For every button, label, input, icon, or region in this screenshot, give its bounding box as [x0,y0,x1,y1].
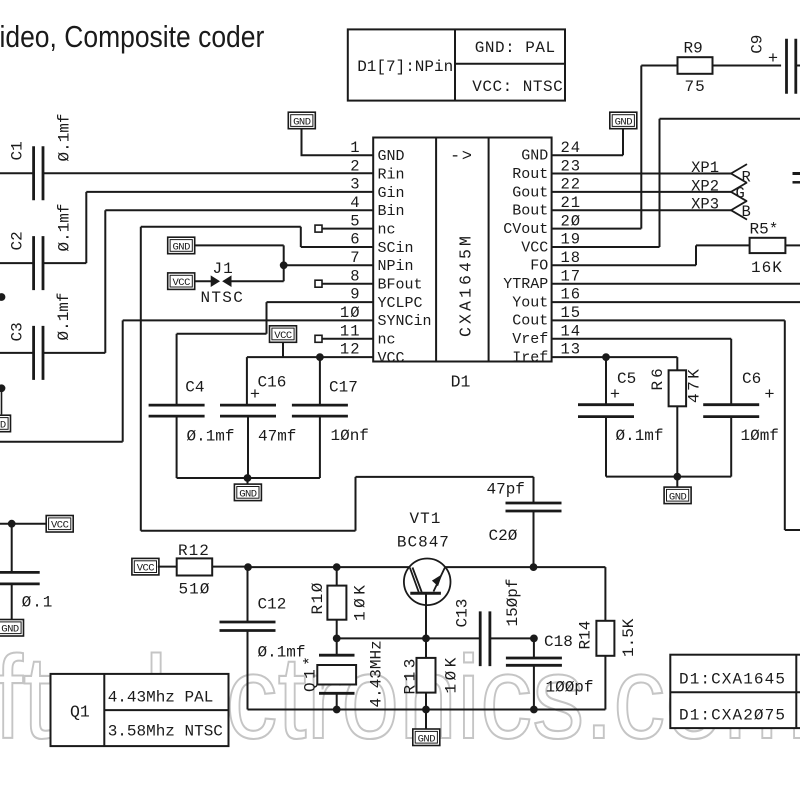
value R12 510 [179,581,211,599]
svg-text:Bin: Bin [378,203,405,220]
resistor R12 [177,558,213,575]
svg-text:XP1: XP1 [691,159,719,177]
wire R13 leads [425,638,427,709]
svg-text:->: -> [450,148,473,167]
wire SYNC RC node (left edge) [0,520,46,622]
capacitor C17 [292,405,348,416]
capacitor C9 (polarized) [768,39,796,94]
svg-text:3.58Mhz NTSC: 3.58Mhz NTSC [108,723,223,741]
wire Bin net (C3 to pin 4) [0,210,373,353]
svg-text:D1:CXA1645: D1:CXA1645 [679,671,786,689]
svg-text:47pf: 47pf [487,481,525,499]
value C3 0.1mf [55,292,73,340]
value C5 0.1mf [616,427,664,445]
svg-text:GND: GND [615,117,633,129]
label NTSC [201,289,245,307]
svg-text:GND: GND [293,117,311,129]
value C1 0.1mf [56,113,74,161]
resistor R13 [417,658,436,693]
svg-text:C1: C1 [9,141,27,160]
wire pin5 nc stub [315,225,373,232]
svg-text:C18: C18 [544,633,573,651]
svg-text:G: G [736,185,745,203]
svg-text:CVout: CVout [503,221,548,238]
svg-text:Gin: Gin [378,185,405,202]
svg-text:SCin: SCin [378,240,414,257]
label B [742,203,751,221]
svg-text:11: 11 [340,322,361,340]
label D1 [451,373,471,392]
left-edge bus stub with junctions [0,293,5,414]
value C4 0.1mf [187,428,235,446]
svg-text:CXA1645M: CXA1645M [457,233,476,337]
svg-text:47mf: 47mf [258,428,296,446]
ground GND (bottom left) [0,620,24,637]
svg-text:1.5K: 1.5K [620,618,638,657]
ground GND (C5 rail) [664,487,691,504]
wire pin1 to ground [302,129,374,156]
svg-text:1ØK: 1ØK [443,654,461,693]
wire YCLPC net (pin 9 to C4) [177,302,374,405]
wire pin11 nc stub [315,335,373,342]
wire R10 leads [336,567,338,638]
svg-text:Ø.1mf: Ø.1mf [258,644,306,662]
capacitor C2 [34,236,43,290]
svg-text:C9: C9 [749,35,767,54]
svg-text:6: 6 [350,231,360,249]
label C17 [329,379,358,397]
label R5* [750,221,779,239]
wire Iref net (pin 13, C5, R6) [552,353,678,405]
ground GND (pin 1) [288,112,315,129]
svg-text:16: 16 [561,286,582,304]
label R [742,169,751,187]
svg-text:Ø.1mf: Ø.1mf [187,428,235,446]
power VCC (bottom left) [46,516,73,533]
value C12 0.1mf [258,644,306,662]
wire NPin net with J1 jumper [194,245,374,281]
svg-text:C2Ø: C2Ø [489,527,518,545]
svg-text:C2: C2 [9,231,27,250]
svg-text:GND: GND [378,148,405,165]
capacitor C1 [34,146,43,200]
svg-text:VCC: VCC [378,350,405,367]
svg-text:J1: J1 [213,260,234,278]
label R14 [577,621,595,650]
wire pin21 to XP3 [552,209,731,211]
transistor VT1 BC847 [404,559,451,606]
wire crystal leads [336,638,338,709]
label R13 [402,655,420,694]
wire YTRAP net (pin 17) [552,283,800,285]
svg-text:C13: C13 [454,599,472,628]
capacitor C-left 0.1 [0,572,40,584]
svg-text:XP3: XP3 [691,196,719,214]
title text [0,19,264,54]
svg-text:C17: C17 [329,379,358,397]
svg-text:BC847: BC847 [397,534,450,552]
svg-text:YTRAP: YTRAP [503,276,548,293]
svg-text:1Ømf: 1Ømf [741,427,779,445]
label R9 [684,40,703,58]
label G [736,185,745,203]
svg-text:VCC: NTSC: VCC: NTSC [472,78,563,96]
wire Rin net (C1 to pin 2) [0,172,373,174]
svg-text:75: 75 [685,78,706,96]
label C12 [258,596,287,614]
wire Vref net (pin 14 to C6) [552,339,732,405]
capacitor C4 [149,405,205,416]
svg-text:C5: C5 [617,370,636,388]
svg-text:4: 4 [350,194,360,212]
label XP1 [691,159,719,177]
wire R12 to collector rail [212,566,248,568]
ground GND (bottom rail) [413,729,440,746]
svg-text:Video, Composite coder: Video, Composite coder [0,19,264,54]
label XP3 [691,196,719,214]
value 4.43MHz [368,640,386,707]
svg-text:1ØK: 1ØK [352,582,370,621]
wire pin8 nc stub [315,280,373,287]
svg-text:Ø.1: Ø.1 [22,594,54,612]
capacitor C12 [220,622,276,631]
svg-text:Vref: Vref [512,331,548,348]
wire C5/R6/C6 ground rail [606,406,731,489]
label C18 [544,633,573,651]
svg-text:C12: C12 [258,596,287,614]
svg-text:GND: GND [1,624,19,636]
label C9 [749,35,767,54]
svg-text:D1:CXA2Ø75: D1:CXA2Ø75 [679,707,786,725]
svg-text:51Ø: 51Ø [179,581,211,599]
wire emitter/ground rail [248,706,606,730]
svg-text:D1[7]:NPin: D1[7]:NPin [357,58,453,76]
svg-text:B: B [742,203,751,221]
svg-text:47K: 47K [686,367,704,403]
wire C20 to rail [533,511,535,567]
svg-text:R6: R6 [649,365,667,390]
svg-text:VT1: VT1 [410,510,442,528]
connector XP1 chevron [731,164,747,183]
resistor R5* [750,238,786,253]
svg-text:nc: nc [378,222,396,239]
wire C4/C16/C17 ground rail [177,416,320,486]
value C2 0.1mf [56,203,74,251]
svg-text:Rin: Rin [378,167,405,184]
label C13 [454,599,472,628]
value R13 10K [443,654,461,693]
connector XP3 chevron [731,201,747,220]
wire SYNCin net (pin 10 to left edge) [0,320,373,441]
svg-text:15Øpf: 15Øpf [504,578,522,626]
jumper J1 bowtie [211,277,231,286]
svg-text:8: 8 [350,267,360,285]
value R14 1.5K [620,618,638,657]
IC direction arrow -> [450,148,473,167]
power VCC (J1) [168,273,195,290]
svg-text:16K: 16K [751,259,783,277]
resistor R9 [678,57,713,74]
label C3 [9,322,27,341]
svg-text:Gout: Gout [512,184,548,201]
wire R14 leads [604,567,606,709]
power VCC (above C16) [270,326,297,343]
ground GND (C4 rail) [234,484,261,501]
ground earth symbol (right edge, cut) [793,174,800,183]
label C1 [9,141,27,160]
svg-text:VCC: VCC [51,520,69,532]
wire FO net (pin 18 to R5) [552,245,750,265]
wire R5 out [785,244,800,246]
svg-text:SYNCin: SYNCin [378,313,432,330]
crystal Q1* [317,655,356,693]
svg-text:NTSC: NTSC [201,289,245,307]
wire CVout net (pin 20 to R9) [552,66,678,229]
svg-text:Cout: Cout [512,313,548,330]
svg-text:R1Ø: R1Ø [309,581,327,614]
svg-text:Ø.1mf: Ø.1mf [56,203,74,251]
table: Q1 crystal options [51,674,229,746]
power VCC (R12) [132,558,159,575]
svg-text:VCC: VCC [274,330,292,342]
svg-text:14: 14 [561,322,582,340]
wire SCin net (pin 6 to C20) [141,227,534,531]
ground GND (left edge, cut) [0,415,11,432]
svg-text:GND: GND [239,488,257,500]
wire VCC net (pin 12, C16, C17) [247,341,373,406]
svg-text:+: + [764,386,774,405]
svg-text:GND: GND [0,420,6,432]
label R10 [309,581,327,614]
svg-text:GND: GND [521,148,548,165]
svg-text:GND: GND [418,733,436,745]
value C20 47pf [487,481,525,499]
value R5 16K [751,259,783,277]
capacitor C5 (polarized) [578,386,634,417]
svg-text:Iref: Iref [512,349,548,366]
table: D1[7]:NPin jumper legend [348,29,565,100]
wire Yout net (pin 16) [552,301,800,303]
value R6 47K [686,367,704,403]
svg-text:1Ø: 1Ø [340,304,361,322]
capacitor C6 (polarized) [703,386,774,417]
value C17 10nf [331,427,369,445]
svg-text:15: 15 [561,304,582,322]
label BC847 [397,534,450,552]
svg-text:NPin: NPin [378,258,414,275]
svg-text:FO: FO [530,258,548,275]
svg-text:12: 12 [340,341,361,359]
svg-text:Rout: Rout [512,166,548,183]
svg-text:C3: C3 [9,322,27,341]
label C20 [489,527,518,545]
label C16 [258,374,287,392]
label R12 [178,542,210,560]
wire collector rail [244,563,605,571]
svg-text:Ø.1mf: Ø.1mf [56,113,74,161]
value R10 10K [352,582,370,621]
resistor R10 [327,586,346,620]
svg-text:D1: D1 [451,373,471,392]
capacitor C18 [506,658,562,665]
svg-text:VCC: VCC [137,563,155,575]
ground GND (J1) [168,237,195,254]
svg-text:R12: R12 [178,542,210,560]
svg-text:13: 13 [561,341,582,359]
svg-text:C16: C16 [258,374,287,392]
wire pin24 to ground [552,129,623,156]
label VT1 [410,510,442,528]
wire base net [333,593,538,642]
svg-text:XP2: XP2 [691,177,719,195]
svg-text:4.43Mhz PAL: 4.43Mhz PAL [108,689,214,707]
resistor R14 [596,621,614,656]
label C5 [617,370,636,388]
svg-text:C4: C4 [185,379,204,397]
IC U-D1 CXA1645M body [373,138,551,362]
svg-text:YCLPC: YCLPC [378,295,423,312]
capacitor C16 (polarized) [220,386,276,416]
IC part number CXA1645M [457,233,476,337]
value C16 47mf [258,428,296,446]
svg-text:GND: GND [172,241,190,253]
svg-text:R14: R14 [577,621,595,650]
wire C18 leads [533,638,535,709]
capacitor C3 [34,326,43,380]
capacitor C13 [480,611,490,666]
IC right pin labels and numbers 24-13 [503,139,581,366]
label R6 [649,365,667,390]
svg-text:+: + [768,50,778,69]
label C4 [185,379,204,397]
wire C9 out [796,65,800,67]
svg-text:17: 17 [561,267,582,285]
label XP2 [691,177,719,195]
wire Cout net (pin 15) [552,320,800,530]
ground GND (pin 24) [610,112,637,129]
capacitor C20 [506,503,562,511]
svg-text:3: 3 [350,176,360,194]
label Q1* [302,653,320,692]
wire VCC to R12 [158,566,177,568]
wire Gin net (C2 to pin 3) [0,192,373,263]
value 0.1 [22,594,54,612]
wire VCC net (pin 19 to right edge) [552,119,800,247]
svg-text:Ø.1mf: Ø.1mf [55,292,73,340]
svg-text:Q1: Q1 [70,703,90,722]
wire pin22 to XP2 [552,191,731,193]
svg-text:2: 2 [350,157,360,175]
svg-text:R5*: R5* [750,221,779,239]
watermark soft-electronics.com (decorative) [0,632,800,764]
svg-text:Ø.1mf: Ø.1mf [616,427,664,445]
svg-text:GND: PAL: GND: PAL [475,39,556,57]
resistor R6 [669,370,687,406]
svg-text:Bout: Bout [512,203,548,220]
svg-text:1Ønf: 1Ønf [331,427,369,445]
wire pin23 to XP1 [552,173,731,175]
svg-text:+: + [610,386,620,405]
svg-text:19: 19 [561,231,582,249]
svg-text:C6: C6 [742,370,761,388]
wire C12 leads [247,567,249,709]
svg-text:1ØØpf: 1ØØpf [546,679,594,697]
svg-text:GND: GND [669,491,687,503]
svg-text:VCC: VCC [521,239,548,256]
svg-text:Yout: Yout [512,294,548,311]
svg-text:BFout: BFout [378,277,423,294]
value C13 150pf [504,578,522,626]
svg-text:VCC: VCC [172,277,190,289]
label C2 [9,231,27,250]
svg-text:R13: R13 [402,655,420,694]
table: D1 IC options [670,655,800,728]
value C6 10mf [741,427,779,445]
svg-text:4.43MHz: 4.43MHz [368,640,386,707]
IC left pin labels and numbers 1-12 [340,139,432,367]
label C6 [742,370,761,388]
wire R9 to C9 [713,65,782,67]
value R9 75 [685,78,706,96]
svg-text:9: 9 [350,286,360,304]
svg-text:R9: R9 [684,40,703,58]
svg-text:Q1*: Q1* [302,653,320,692]
value C18 100pf [546,679,594,697]
svg-text:nc: nc [378,332,396,349]
label J1 [213,260,234,278]
connector XP2 chevron [731,183,747,202]
